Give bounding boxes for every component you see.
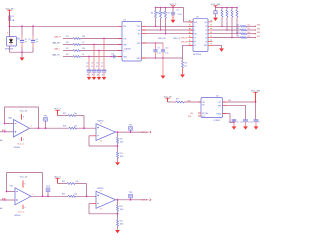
resistor R5 (66, 48, 85, 52)
svg-text:C1: C1 (17, 39, 19, 41)
svg-text:uF: uF (91, 74, 93, 76)
test point TP3 (46, 186, 51, 197)
svg-text:R25: R25 (120, 221, 123, 223)
wire row SWCLK (213, 29, 241, 31)
test point TP2 (129, 124, 134, 132)
svg-text:R22: R22 (62, 194, 65, 196)
svg-text:CAN_H: CAN_H (54, 36, 61, 39)
svg-text:MCP2200: MCP2200 (193, 54, 201, 56)
wire opamp2 -input (93, 135, 97, 137)
wire feedback box top 2 (7, 172, 43, 174)
junction out3 tp (47, 195, 49, 197)
junction fb4 (117, 213, 119, 215)
wire rail corner to U2 (184, 8, 194, 22)
wire tap C6 (98, 51, 100, 70)
wire row BOOT (213, 37, 241, 39)
resistor R6 (66, 54, 84, 58)
resistor R11 (182, 58, 188, 74)
net label GND stub (188, 116, 201, 118)
junction R16 (236, 33, 238, 35)
svg-text:OUT_2: OUT_2 (141, 200, 147, 202)
wire node to opamp2 (77, 127, 97, 129)
ground under C11 (232, 126, 237, 129)
svg-text:10k: 10k (74, 126, 77, 128)
svg-text:TX: TX (194, 37, 196, 39)
wire pullup rail (156, 7, 184, 9)
svg-text:10k: 10k (167, 13, 170, 15)
svg-text:R6: R6 (66, 54, 68, 56)
svg-text:8: 8 (25, 184, 26, 186)
net label EN stub (191, 113, 202, 115)
wire U1-U2 b (142, 29, 194, 31)
power flag VCC_3V3 (211, 4, 221, 8)
wire row CAN_TX right (81, 56, 123, 58)
svg-text:RST: RST (194, 34, 197, 36)
resistor R15 (231, 8, 233, 38)
resistor R21 row SWDIO (236, 24, 254, 27)
svg-text:SWDIO: SWDIO (257, 25, 260, 27)
net label BOOT (255, 36, 262, 39)
label LM2904 opamp3 (14, 215, 20, 217)
wire U1-U2 a (142, 25, 194, 27)
wire feedback box top (5, 106, 39, 108)
wire U1-U2 c (142, 33, 194, 35)
wire tap C5 (93, 45, 95, 70)
junction tap C6 (98, 50, 100, 52)
opamp U6C V- pin (23, 205, 26, 209)
svg-text:1k: 1k (82, 42, 84, 44)
capacitor C5 (91, 63, 96, 77)
svg-text:3V3: 3V3 (228, 100, 231, 102)
svg-text:OUT: OUT (218, 102, 221, 104)
capacitor C10 (161, 43, 169, 58)
svg-text:RX: RX (194, 41, 196, 43)
junction bias node (83, 127, 85, 129)
wire opamp4 output (116, 199, 149, 201)
svg-text:R9: R9 (156, 13, 158, 15)
svg-text:C4: C4 (86, 63, 88, 65)
ground GND4 (115, 162, 120, 165)
test point TP1 (44, 115, 49, 128)
svg-text:0.1: 0.1 (96, 66, 98, 68)
svg-text:USB_DM: USB_DM (158, 38, 166, 40)
label cut left1 (0, 139, 3, 142)
power flag VCC_5 bias1 (54, 109, 62, 116)
svg-text:220: 220 (82, 48, 85, 50)
svg-text:CAN_L: CAN_L (54, 48, 60, 51)
svg-text:USB_DP: USB_DP (173, 38, 181, 40)
svg-text:VCC_5V: VCC_5V (20, 110, 28, 112)
capacitor C2 (28, 26, 38, 52)
wire tap C7 (103, 39, 105, 70)
svg-text:LM2904: LM2904 (97, 188, 103, 190)
wire reg input (168, 101, 177, 103)
wire main +V rail (10, 25, 123, 27)
resistor R16 (236, 8, 238, 34)
junction pullup x173 (172, 7, 174, 9)
photodiode D1 (7, 37, 20, 47)
resistor R3 (66, 36, 85, 40)
svg-text:CAN_RX: CAN_RX (52, 42, 61, 45)
wire row CAN_L left (63, 50, 73, 52)
wire feedback box right (38, 107, 40, 128)
wire row CAN_TX left (63, 56, 73, 58)
svg-text:R4: R4 (66, 42, 68, 44)
svg-text:SWCLK: SWCLK (257, 28, 260, 30)
ferrite bead L1 (214, 8, 217, 18)
wire feedback loop2 (89, 136, 118, 146)
wire bottom rail (10, 51, 34, 53)
junction fb (233, 122, 235, 124)
capacitor C6 (96, 63, 101, 77)
junction pullup x165.5 (165, 7, 167, 9)
junction pullup x155.5 (155, 7, 157, 9)
label cut left2 (0, 207, 3, 210)
junction GND net 163 (162, 57, 164, 59)
svg-text:R24: R24 (236, 36, 239, 38)
svg-text:R8: R8 (151, 13, 153, 15)
svg-text:C9: C9 (158, 48, 160, 50)
junction bias node 2 (86, 195, 88, 197)
svg-text:C12: C12 (240, 122, 243, 124)
wire feedback box left 2 (6, 173, 8, 192)
capacitor C4 (86, 63, 91, 77)
svg-text:P2: P2 (205, 34, 207, 36)
svg-text:1u: 1u (237, 122, 239, 124)
capacitor C13 (250, 120, 262, 126)
resistor R23 (62, 181, 78, 184)
ground GND3 (180, 74, 185, 77)
svg-text:1k: 1k (82, 54, 84, 56)
svg-text:10k: 10k (76, 181, 79, 183)
label VCC_5 over opamp1 (20, 110, 28, 112)
svg-text:C13: C13 (250, 122, 253, 124)
svg-text:100k: 100k (120, 156, 124, 158)
svg-text:100k: 100k (120, 224, 124, 226)
svg-text:P3: P3 (205, 37, 207, 39)
net label USB_DP stub (181, 37, 187, 39)
wire D1 to bottom rail (9, 46, 11, 52)
svg-text:R11: R11 (184, 62, 187, 64)
svg-text:0.1u: 0.1u (259, 122, 260, 124)
svg-text:R23: R23 (236, 32, 239, 34)
junction R10 bottom (165, 33, 167, 35)
label USB_DP (173, 38, 181, 40)
svg-text:BP_SEL: BP_SEL (202, 113, 208, 115)
ground GND2 (161, 76, 166, 79)
ground under C12 (243, 126, 248, 129)
resistor R19 (63, 113, 77, 116)
svg-text:PG0: PG0 (188, 116, 191, 118)
net label OUT1 (141, 131, 151, 134)
net label VEE opamp1 (18, 143, 24, 145)
svg-text:C7: C7 (101, 63, 103, 65)
ground under C6 (97, 77, 101, 80)
wire feedback box right 2 (42, 173, 44, 197)
wire opamp3 output (31, 194, 68, 196)
junction U5 out (255, 101, 257, 103)
junction out2 tp (130, 131, 132, 133)
junction tap C7 (103, 38, 105, 40)
resistor R25 (117, 220, 124, 230)
wire U5 out (223, 100, 256, 102)
IC U1 (122, 20, 142, 61)
capacitor C1 (17, 26, 27, 52)
wire row SWDIO (213, 25, 241, 27)
svg-text:R24: R24 (120, 206, 123, 208)
svg-text:R20: R20 (120, 138, 123, 140)
resistor R9 (156, 8, 165, 31)
wire cap1 drop (233, 119, 235, 122)
svg-text:10k: 10k (247, 36, 250, 38)
svg-text:SNS: SNS (218, 105, 221, 107)
wire row CAN_RX right (81, 44, 123, 46)
svg-text:C2: C2 (28, 39, 30, 41)
svg-text:0.1uF: 0.1uF (178, 14, 182, 16)
svg-text:LM2904: LM2904 (14, 147, 20, 149)
svg-text:C14: C14 (111, 53, 114, 55)
junction R13 (221, 26, 223, 28)
junction tap C4 (88, 56, 90, 58)
svg-text:P0: P0 (205, 26, 207, 28)
junction VDD net (155, 42, 157, 44)
opamp U6C V+ pin (23, 181, 26, 188)
net label OUT2 (141, 199, 151, 202)
junction rail/C2 (32, 25, 34, 27)
junction bottom rail (21, 51, 23, 53)
wire row CAN_RX left (63, 44, 73, 46)
resistor R20 (117, 132, 124, 152)
svg-text:C5: C5 (91, 63, 93, 65)
svg-text:10k: 10k (184, 66, 187, 68)
net label CAN_H (54, 36, 61, 39)
svg-text:0.1: 0.1 (36, 39, 39, 41)
wire bias2 (58, 183, 68, 185)
svg-text:R19: R19 (63, 113, 66, 115)
svg-text:uF: uF (86, 74, 88, 76)
svg-text:LM2904: LM2904 (14, 215, 20, 217)
svg-text:USB_DM: USB_DM (181, 41, 188, 43)
svg-text:LP38692: LP38692 (214, 120, 221, 122)
power arrow down (213, 18, 218, 21)
wire U5 nc (223, 104, 246, 106)
wire row CAN_L right (81, 50, 123, 52)
svg-text:VCC_-5: VCC_-5 (18, 143, 24, 145)
net label CAN_L (54, 48, 60, 51)
wire opamp4 -input (93, 203, 97, 205)
junction 3v3 rail 2 (231, 7, 233, 9)
junction GND net (155, 57, 157, 59)
svg-text:P1: P1 (205, 30, 207, 32)
svg-text:C10: C10 (165, 48, 168, 50)
svg-text:C6: C6 (96, 63, 98, 65)
net label input2 (2, 197, 6, 200)
svg-text:GP: GP (194, 45, 196, 47)
op-amp U6D (96, 188, 116, 209)
junction 3v3 rail 0 (221, 7, 223, 9)
svg-text:100k: 100k (120, 209, 124, 211)
ground under C4 (87, 77, 91, 80)
wire opamp1 output (30, 126, 70, 128)
svg-text:0.1: 0.1 (91, 66, 93, 68)
wire R17 to U5 (184, 100, 201, 102)
op-amp U6B (96, 121, 116, 142)
net label input1 (2, 129, 6, 132)
svg-text:VCC_-5: VCC_-5 (18, 212, 24, 214)
junction pullup x160.5 (160, 7, 162, 9)
net label NRST (255, 32, 262, 35)
resistor R8 (151, 8, 160, 27)
svg-text:BOOT: BOOT (257, 36, 260, 38)
svg-text:P4: P4 (205, 41, 207, 43)
svg-text:NRST: NRST (257, 32, 260, 34)
svg-text:220: 220 (82, 36, 85, 38)
net label USB_DM stub (181, 41, 188, 43)
op-amp U6C (10, 186, 32, 205)
junction rail/photodiode (9, 25, 11, 27)
wire bias1 right (76, 116, 85, 129)
junction 3v3 rail 3 (236, 7, 238, 9)
svg-text:100k: 100k (120, 141, 124, 143)
junction 3v3 rail 1 (226, 7, 228, 9)
wire U2 pin7 (183, 45, 194, 58)
wire bias1 (58, 115, 69, 117)
svg-text:10k: 10k (247, 32, 250, 34)
wire row CAN_H right (81, 38, 123, 40)
resistor R10 (161, 8, 170, 34)
svg-text:TJA1050: TJA1050 (124, 48, 131, 51)
svg-text:0.1: 0.1 (86, 66, 88, 68)
wire GND net down (162, 58, 164, 75)
svg-text:R21: R21 (120, 153, 123, 155)
capacitor C7 (101, 63, 106, 77)
svg-text:D+: D+ (194, 26, 196, 28)
svg-text:10: 10 (25, 39, 27, 41)
resistor R22 (62, 194, 77, 198)
net label SWDIO (255, 25, 263, 28)
wire cap2 drop (245, 105, 247, 119)
label BPW34 under D1 (5, 48, 14, 50)
svg-text:4: 4 (23, 139, 24, 141)
wire rail to D1 (7, 26, 10, 36)
label USB_DM (158, 38, 166, 40)
wire opamp2 output (116, 131, 149, 133)
opamp U6A V+ pin (22, 114, 25, 120)
ground under C7 (102, 77, 106, 80)
junction input1 (4, 131, 6, 133)
junction out2 div (117, 131, 119, 133)
ground arrow U2 (219, 48, 224, 51)
svg-text:0.1u: 0.1u (158, 53, 161, 55)
junction tap C5 (93, 44, 95, 46)
svg-text:4: 4 (25, 207, 26, 209)
svg-text:uF: uF (96, 74, 98, 76)
capacitor C12 (240, 120, 251, 126)
svg-text:R10: R10 (161, 13, 164, 15)
junction R15 (231, 37, 233, 39)
wire row NRST (213, 33, 241, 35)
junction fb left (4, 123, 6, 125)
svg-text:0.1: 0.1 (101, 66, 103, 68)
wire U1 VDD net (142, 42, 164, 44)
junction out4 div (117, 199, 119, 201)
resistor R17 (176, 99, 184, 103)
junction fb2 (117, 145, 119, 147)
fuse F1 (9, 15, 15, 23)
svg-text:R3: R3 (66, 36, 68, 38)
resistor R24 (117, 200, 124, 220)
ground GND5 (115, 230, 120, 233)
resistor R22 row SWCLK (236, 28, 254, 31)
junction out3 fb (42, 195, 44, 197)
capacitor C8 (171, 8, 182, 20)
svg-text:U5: U5 (216, 95, 218, 97)
resistor R23 row NRST (236, 32, 254, 35)
junction out fb (38, 127, 40, 129)
wire U5 fb (223, 114, 235, 123)
svg-text:8: 8 (23, 117, 24, 119)
wire to inverting input (5, 123, 14, 125)
svg-text:VCC_5V: VCC_5V (20, 176, 28, 178)
junction R9 bottom (160, 29, 162, 31)
wire fuse to rail (9, 22, 11, 26)
wire U2 bottom right (213, 45, 222, 48)
series cap row4 (110, 53, 122, 58)
svg-text:C11: C11 (228, 122, 231, 124)
junction rail/C1 (21, 25, 23, 27)
svg-text:USB_DP: USB_DP (181, 37, 187, 39)
wire U1 GND net (142, 57, 183, 59)
ground GND1 (20, 52, 25, 61)
label LM2904 opamp1 (14, 147, 20, 149)
junction R14 (226, 29, 228, 31)
svg-text:10k: 10k (247, 28, 250, 30)
resistor R14 (226, 8, 228, 31)
wire feedback loop4 (89, 204, 118, 214)
svg-text:LM2904: LM2904 (97, 121, 103, 123)
resistor R4 (66, 42, 84, 46)
svg-text:10k: 10k (74, 113, 77, 115)
svg-text:uF: uF (101, 74, 103, 76)
capacitor C9 (153, 43, 160, 58)
resistor R24 row BOOT (236, 36, 254, 39)
wire bias2 right (75, 184, 87, 197)
wire opamp3 +input (0, 199, 15, 201)
wire cap3 drop (255, 102, 257, 119)
power flag VCC_IN (6, 8, 14, 14)
svg-text:CAN_TX: CAN_TX (52, 54, 60, 57)
IC U5 regulator (201, 95, 223, 122)
net label CAN_TX (52, 54, 60, 57)
power flag VCC_3V3 out (251, 91, 261, 103)
ground under C13 (254, 126, 259, 129)
net label CAN_RX (52, 42, 61, 45)
ground under C8 (171, 20, 176, 23)
test point TP4 (129, 192, 134, 200)
svg-text:R5: R5 (66, 48, 68, 50)
junction out4 tp (130, 199, 132, 201)
capacitor C11 (228, 120, 239, 126)
svg-text:R17: R17 (176, 99, 179, 101)
svg-text:0.1u: 0.1u (165, 53, 168, 55)
wire feedback box left (4, 107, 6, 124)
svg-text:R23: R23 (62, 181, 65, 183)
resistor R21 (117, 152, 124, 162)
wire opamp1 +input (0, 131, 14, 133)
svg-text:C8: C8 (177, 9, 179, 11)
junction R8 bottom (155, 26, 157, 28)
svg-text:10k: 10k (247, 24, 250, 26)
